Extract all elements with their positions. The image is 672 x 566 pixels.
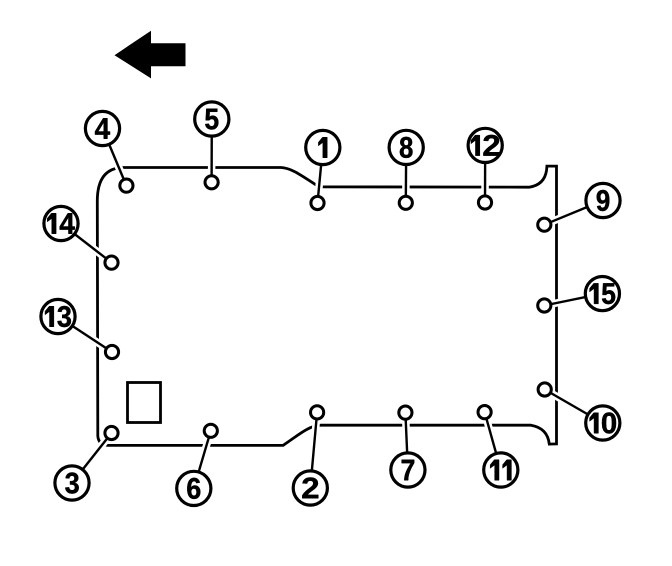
bolt hole 15 xyxy=(538,299,551,312)
leader line 5 xyxy=(208,119,216,182)
bolt hole 1 xyxy=(311,196,324,209)
callout 5 xyxy=(195,102,229,136)
callout 1 xyxy=(306,130,340,164)
bolt hole 3 xyxy=(105,426,118,439)
bolt hole 10 xyxy=(538,383,551,396)
callout 14 xyxy=(44,206,78,240)
leader line 12 xyxy=(481,145,489,202)
bolt hole 6 xyxy=(204,424,217,437)
bolt hole 4 xyxy=(120,179,133,192)
callout 7 xyxy=(391,453,425,487)
cover outline xyxy=(97,166,556,445)
bolt hole 8 xyxy=(399,196,412,209)
leader line 6 xyxy=(194,431,211,489)
direction arrow xyxy=(115,31,186,79)
bolt hole 11 xyxy=(478,406,491,419)
leader line 3 xyxy=(72,433,112,483)
callout 2 xyxy=(293,471,327,505)
bolt hole 9 xyxy=(538,218,551,231)
leader line 4 xyxy=(103,129,127,186)
callout 12 xyxy=(468,128,502,162)
bolt hole 13 xyxy=(105,345,118,358)
leader line 13 xyxy=(58,317,112,353)
bolt hole 7 xyxy=(399,406,412,419)
rectangular boss feature xyxy=(128,383,161,423)
callout 11 xyxy=(484,453,518,487)
bolt hole 5 xyxy=(205,176,218,189)
callout 9 xyxy=(586,183,620,217)
callout 10 xyxy=(586,406,620,440)
leader line 1 xyxy=(318,148,323,204)
bolt hole 2 xyxy=(311,406,324,419)
bolt hole 12 xyxy=(478,196,491,209)
leader line 10 xyxy=(545,390,603,424)
callout 13 xyxy=(41,299,75,333)
leader line 9 xyxy=(544,201,603,225)
callout 4 xyxy=(85,111,119,145)
callout 15 xyxy=(585,277,619,311)
leader line 15 xyxy=(544,294,602,306)
bolt hole 14 xyxy=(105,256,118,269)
callout 8 xyxy=(389,130,423,164)
leader line 8 xyxy=(402,147,410,202)
callout 3 xyxy=(55,466,89,500)
leader line 2 xyxy=(310,412,317,488)
leader line 7 xyxy=(405,413,408,470)
leader line 11 xyxy=(485,412,501,470)
callout 6 xyxy=(177,471,211,505)
leader line 14 xyxy=(61,224,112,263)
